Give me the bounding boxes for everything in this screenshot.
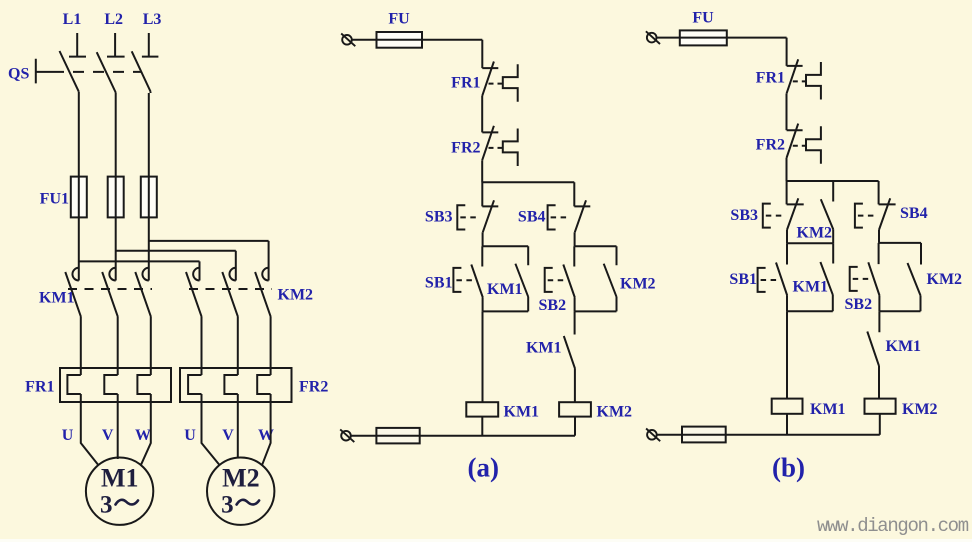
thermal relay FR2 label (299, 379, 328, 396)
pushbutton SB2 NO (b) (850, 243, 880, 311)
wire feed phase2 to KM2 pole2 (116, 251, 236, 281)
node V label (M2) (222, 427, 234, 444)
svg-text:M2: M2 (222, 464, 260, 493)
contact KM1 sequence label (a) (526, 340, 562, 357)
node W label (M1) (135, 427, 151, 444)
pushbutton SB4 NC (a) (548, 200, 591, 246)
parallel join wire SB3/KM2 (b) (787, 242, 833, 244)
KM1 gang dashed link (68, 288, 152, 290)
svg-text:FR1: FR1 (25, 379, 54, 396)
L2 incoming terminal stub (107, 33, 125, 57)
svg-text:KM2: KM2 (620, 276, 656, 293)
node L3 label (143, 11, 162, 28)
FR2 heater element phase 3 (257, 368, 270, 402)
contact KM1 sequence NO (a) (564, 311, 575, 402)
pushbutton SB1 NO (b) (758, 243, 788, 311)
svg-text:3: 3 (221, 492, 234, 519)
coil KM1 label (a) (504, 404, 540, 421)
svg-text:M1: M1 (101, 464, 139, 493)
QS gang dashed link (53, 71, 141, 73)
fuse bottom (b) (682, 427, 726, 443)
wire branch junction (b) (787, 158, 879, 204)
coil KM1 (a) (466, 402, 498, 416)
contactor KM1 main contact pole 2 (102, 268, 118, 368)
coil KM2 label (a) (597, 404, 633, 421)
coil KM2 (a) (559, 402, 591, 416)
svg-text:KM1: KM1 (504, 404, 540, 421)
pushbutton SB4 label (b) (900, 205, 928, 222)
contact KM2 aux label (a) (620, 276, 656, 293)
svg-text:SB4: SB4 (900, 205, 928, 222)
pushbutton SB2 label (b) (845, 296, 873, 313)
node U label (M2) (184, 427, 196, 444)
svg-text:W: W (135, 427, 151, 444)
coil KM1 label (b) (810, 401, 846, 418)
watermark (817, 515, 969, 537)
parallel block top wire (a right) (574, 245, 616, 247)
wire FR1-FR2 (b) (786, 94, 788, 131)
pushbutton SB3 NC (b) (763, 198, 804, 243)
parallel block top wire (a left) (482, 245, 528, 247)
wire KM1 coil to bus (a) (481, 417, 483, 436)
svg-text:KM1: KM1 (39, 290, 75, 307)
wire to KM1 coil (a) (482, 311, 484, 402)
fuse FU1 phase 2 (108, 177, 124, 218)
FR1 heater element phase 3 (137, 368, 150, 402)
pushbutton SB3 NC (a) (457, 200, 498, 246)
parallel block top wire (b right) (879, 242, 921, 244)
disconnect switch QS label (8, 66, 29, 83)
wire phase 3 fuse to KM1 (148, 177, 150, 281)
motor M1 (86, 458, 153, 525)
thermal relay FR1 box (60, 368, 171, 402)
contactor KM2 main contact pole 2 (222, 268, 238, 368)
svg-text:(a): (a) (468, 453, 499, 483)
wire KM1 coil to bus (b) (786, 414, 788, 435)
pushbutton SB4 NC (b) (855, 198, 896, 243)
thermal NC contact FR2 (a) (482, 126, 518, 166)
coil KM2 label (b) (902, 401, 938, 418)
FR1 heater element phase 1 (67, 368, 80, 402)
motor M2 lead V (237, 402, 239, 458)
svg-text:KM2: KM2 (902, 401, 938, 418)
svg-text:KM2: KM2 (927, 271, 963, 288)
fuse bottom (a) (376, 428, 419, 444)
QS blade pole 2 (97, 52, 116, 92)
wire feed phase1 to KM2 pole1 (79, 261, 200, 280)
wire to KM1 coil (b) (786, 311, 788, 398)
contactor KM2 main contact pole 1 (186, 268, 202, 368)
svg-text:SB2: SB2 (845, 296, 873, 313)
svg-text:U: U (62, 427, 74, 444)
svg-text:www.diangon.com: www.diangon.com (817, 515, 969, 537)
svg-text:V: V (102, 427, 114, 444)
pushbutton SB3 label (b) (730, 207, 758, 224)
node W label (M2) (258, 427, 274, 444)
FR2 heater element phase 2 (224, 368, 237, 402)
thermal NC contact FR1 (a) (482, 62, 518, 102)
motor M2 (207, 458, 274, 525)
contactor KM1 main contact pole 3 (135, 268, 151, 368)
svg-text:KM2: KM2 (597, 404, 633, 421)
thermal contact FR1 label (a) (451, 75, 480, 92)
QS blade pole 1 (60, 51, 79, 92)
svg-text:KM1: KM1 (487, 281, 523, 298)
node L2 label (104, 11, 123, 28)
coil KM1 (b) (772, 399, 803, 414)
wire phase 1 QS to fuse (78, 92, 80, 177)
thermal contact FR1 label (b) (756, 70, 785, 87)
contact KM1 aux NO self-hold (b) (820, 243, 833, 311)
thermal contact FR2 label (b) (756, 137, 785, 154)
svg-text:SB1: SB1 (729, 271, 757, 288)
L3 incoming terminal stub (142, 33, 159, 57)
motor M1 lead U (81, 402, 98, 465)
svg-text:FR2: FR2 (451, 139, 480, 156)
contactor KM1 main contact pole 1 (65, 268, 81, 368)
terminal top (a) (341, 34, 355, 47)
wire KM2 coil to bus (b) (879, 414, 881, 435)
thermal relay FR2 box (180, 368, 292, 402)
wire phase 1 fuse to KM1 (78, 177, 80, 281)
contact KM2 stop-release label (b) (797, 225, 833, 242)
motor M1 lead W (141, 402, 151, 465)
fuse FU label (b) (692, 9, 714, 26)
caption (b) (772, 453, 805, 483)
svg-text:SB4: SB4 (518, 209, 546, 226)
contact KM1 sequence label (b) (886, 338, 922, 355)
svg-text:FU: FU (388, 11, 410, 28)
svg-text:KM2: KM2 (797, 225, 833, 242)
svg-text:V: V (222, 427, 234, 444)
pushbutton SB4 label (a) (518, 209, 546, 226)
L1 incoming terminal stub (69, 33, 86, 57)
svg-text:SB1: SB1 (425, 275, 453, 292)
fuse FU label (a) (388, 11, 410, 28)
pushbutton SB1 label (b) (729, 271, 757, 288)
svg-text:KM2: KM2 (278, 287, 314, 304)
svg-text:L2: L2 (104, 11, 123, 28)
contact KM2 aux NO self-hold (b) (908, 243, 922, 311)
thermal contact FR2 label (a) (451, 139, 480, 156)
thermal relay FR1 label (25, 379, 54, 396)
contact KM1 aux label (b) (793, 279, 829, 296)
contact KM1 sequence NO (b) (867, 311, 879, 398)
wire phase 3 QS to fuse (149, 92, 151, 177)
wire FR1-FR2 (a) (481, 96, 483, 132)
contact KM1 aux NO self-hold (a) (515, 246, 528, 311)
contactor KM2 label (278, 287, 314, 304)
node U label (M1) (62, 427, 74, 444)
wire feed phase3 to KM2 pole3 (149, 241, 269, 281)
FR2 heater element phase 1 (188, 368, 201, 402)
wire KM2 coil to bus (a) (574, 417, 576, 436)
contactor KM1 label (39, 290, 75, 307)
KM2 gang dashed link (189, 288, 272, 290)
svg-text:SB3: SB3 (425, 209, 453, 226)
svg-text:KM1: KM1 (886, 338, 922, 355)
motor M2 lead U (202, 402, 220, 465)
wire top (a) (351, 40, 482, 68)
pushbutton SB1 label (a) (425, 275, 453, 292)
pushbutton SB1 NO (a) (453, 246, 482, 311)
svg-text:FU1: FU1 (40, 191, 69, 208)
parallel block bottom wire (b right) (879, 310, 920, 312)
fuse FU1 phase 3 (141, 177, 157, 218)
svg-text:KM1: KM1 (793, 279, 829, 296)
wire top (b) (656, 38, 787, 66)
terminal top (b) (646, 31, 660, 44)
svg-text:SB3: SB3 (730, 207, 758, 224)
terminal bottom (b) (646, 429, 660, 442)
contact KM2 aux NO self-hold (a) (604, 246, 617, 311)
thermal NC contact FR1 (b) (787, 59, 821, 99)
motor M1 lead V (117, 402, 119, 459)
parallel block bottom wire (a left) (483, 310, 529, 312)
svg-text:L3: L3 (143, 11, 162, 28)
node L1 label (63, 11, 82, 28)
fuse FU1 label (40, 191, 69, 208)
wire branch junction (a) (482, 160, 574, 206)
fuse FU (b) (680, 30, 727, 45)
node V label (M1) (102, 427, 114, 444)
pushbutton SB2 NO (a) (545, 246, 575, 311)
wire phase 2 QS to fuse (115, 93, 117, 177)
contact KM2 NO parallel to SB3 (b) (821, 181, 833, 243)
wire phase 2 fuse to KM1 (115, 177, 117, 281)
motor M2 lead W (262, 402, 271, 465)
svg-text:(b): (b) (772, 453, 805, 483)
parallel block bottom wire (a right) (575, 310, 617, 312)
fuse FU1 phase 1 (71, 177, 87, 218)
svg-text:KM1: KM1 (526, 340, 562, 357)
svg-text:L1: L1 (63, 11, 82, 28)
svg-text:FR2: FR2 (299, 379, 328, 396)
QS operator bar (36, 59, 53, 84)
terminal bottom (a) (340, 429, 354, 442)
svg-text:SB2: SB2 (539, 297, 567, 314)
parallel block bottom wire (b left) (787, 310, 833, 312)
coil KM2 (b) (865, 399, 896, 414)
contactor KM2 main contact pole 3 (255, 268, 271, 368)
svg-text:FR1: FR1 (756, 70, 785, 87)
svg-text:3: 3 (100, 492, 113, 519)
bottom bus wire (b) (656, 434, 880, 436)
pushbutton SB3 label (a) (425, 209, 453, 226)
svg-text:FR2: FR2 (756, 137, 785, 154)
bottom bus wire (a) (350, 435, 575, 437)
svg-text:KM1: KM1 (810, 401, 846, 418)
thermal NC contact FR2 (b) (787, 124, 821, 164)
svg-text:U: U (184, 427, 196, 444)
svg-text:FR1: FR1 (451, 75, 480, 92)
svg-text:QS: QS (8, 66, 29, 83)
svg-text:FU: FU (692, 9, 714, 26)
fuse FU (a) (377, 32, 423, 48)
contact KM2 aux label (b) (927, 271, 963, 288)
pushbutton SB2 label (a) (539, 297, 567, 314)
FR1 heater element phase 2 (104, 368, 117, 402)
contact KM1 aux label (a) (487, 281, 523, 298)
QS blade pole 3 (132, 51, 151, 91)
caption (a) (468, 453, 499, 483)
